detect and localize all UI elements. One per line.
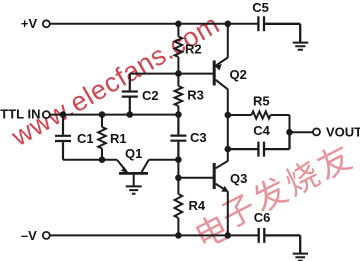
resistor R4	[175, 178, 183, 236]
transistor Q3	[213, 163, 216, 189]
svg-text:+V: +V	[21, 16, 38, 31]
svg-text:TTL IN: TTL IN	[0, 107, 40, 122]
junction Q3 base / R4 top	[175, 175, 182, 182]
capacitor C2	[122, 74, 138, 115]
resistor R5	[228, 111, 290, 132]
svg-text:C3: C3	[190, 130, 207, 145]
transistor Q2	[213, 61, 216, 86]
terminal -V	[43, 232, 50, 239]
wire node C2 top to Q2 base	[130, 73, 214, 75]
svg-text:R3: R3	[187, 87, 204, 102]
junction -V rail / Q3 emitter	[225, 232, 232, 239]
capacitor C3	[170, 115, 186, 160]
junction TTL wire / R1	[99, 111, 106, 118]
svg-text:Q1: Q1	[125, 146, 142, 161]
capacitor C1	[55, 115, 71, 160]
junction node wire / R2-R3	[175, 70, 182, 77]
svg-text:Q2: Q2	[230, 67, 247, 82]
svg-text:C1: C1	[77, 131, 94, 146]
capacitor C5	[258, 16, 300, 42]
terminal +V	[43, 20, 50, 27]
wire -V bottom rail	[50, 234, 259, 236]
svg-text:C6: C6	[254, 210, 271, 225]
junction -V rail / R4	[175, 232, 182, 239]
junction TTL wire / C2	[127, 111, 134, 118]
svg-text:R4: R4	[189, 198, 206, 213]
resistor R1	[98, 115, 106, 160]
arrow Q2 emitter	[215, 64, 222, 71]
svg-text:R2: R2	[185, 42, 202, 57]
arrow Q1 emitter	[121, 167, 128, 173]
terminal VOUT	[313, 128, 320, 135]
wire C3 bottom to Q3 base node	[177, 160, 179, 178]
svg-text:Q3: Q3	[230, 171, 247, 186]
junction +V rail / Q2 emitter	[225, 21, 232, 28]
capacitor C6	[259, 228, 301, 254]
wire +V top rail	[50, 23, 259, 25]
resistor R3	[175, 74, 183, 115]
watermark dianzifashaoyou	[193, 141, 354, 250]
resistor R2	[175, 24, 183, 74]
wire Q3 base	[178, 177, 214, 179]
junction Q1 collector / C3 bottom	[175, 156, 182, 163]
wire to VOUT	[290, 131, 313, 133]
transistor Q1	[119, 172, 148, 175]
svg-text:R5: R5	[253, 94, 270, 109]
svg-text:–V: –V	[21, 228, 37, 243]
junction TTL wire / C1	[60, 111, 67, 118]
svg-text:C5: C5	[252, 0, 269, 15]
wire C1/R1 bottom to Q1 emitter	[63, 159, 117, 161]
junction output node / C4	[225, 146, 232, 153]
junction output node / R5	[225, 112, 232, 119]
arrow Q3 emitter	[221, 186, 228, 192]
wire output node column	[227, 115, 229, 149]
ground Q1 base	[126, 186, 142, 193]
wire TTL IN	[50, 114, 179, 116]
ground C5	[293, 43, 309, 50]
svg-text:C4: C4	[253, 123, 270, 138]
ground C6	[293, 254, 308, 261]
capacitor C4	[228, 132, 290, 156]
terminal TTL IN	[43, 111, 50, 118]
junction VOUT wire / C4-R5	[286, 129, 293, 136]
svg-text:R1: R1	[110, 131, 127, 146]
junction +V rail / R2 top	[175, 21, 182, 28]
junction TTL wire / R3 bottom	[175, 111, 182, 118]
svg-text:VOUT: VOUT	[326, 124, 360, 139]
junction bottom wire / R1	[99, 156, 106, 163]
svg-text:C2: C2	[142, 88, 159, 103]
